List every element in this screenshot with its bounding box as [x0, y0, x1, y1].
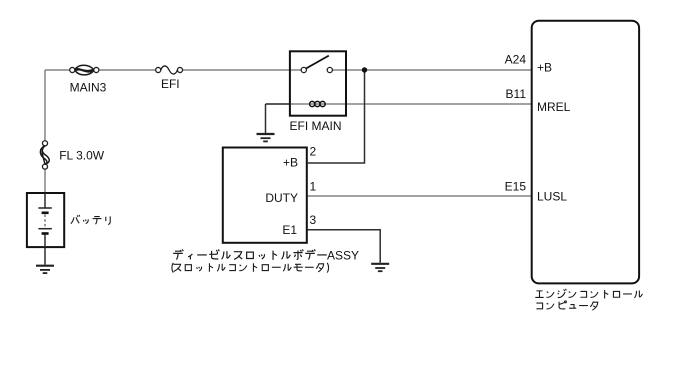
svg-text:MREL: MREL: [537, 100, 571, 114]
svg-text:DUTY: DUTY: [265, 191, 298, 205]
svg-text:LUSL: LUSL: [537, 189, 567, 203]
svg-text:A24: A24: [505, 53, 527, 67]
svg-text:2: 2: [310, 144, 317, 158]
svg-text:+B: +B: [537, 61, 552, 75]
svg-text:3: 3: [310, 213, 317, 227]
svg-text:ASSY: ASSY: [327, 249, 359, 263]
svg-text:E1: E1: [282, 223, 297, 237]
svg-text:E15: E15: [505, 179, 527, 193]
svg-text:FL 3.0W: FL 3.0W: [59, 149, 105, 163]
svg-text:EFI: EFI: [161, 77, 180, 91]
svg-text:1: 1: [310, 179, 317, 193]
svg-text:EFI MAIN: EFI MAIN: [290, 119, 342, 133]
svg-text:MAIN3: MAIN3: [70, 80, 107, 94]
svg-text:B11: B11: [506, 87, 527, 101]
svg-text:+B: +B: [283, 155, 298, 169]
